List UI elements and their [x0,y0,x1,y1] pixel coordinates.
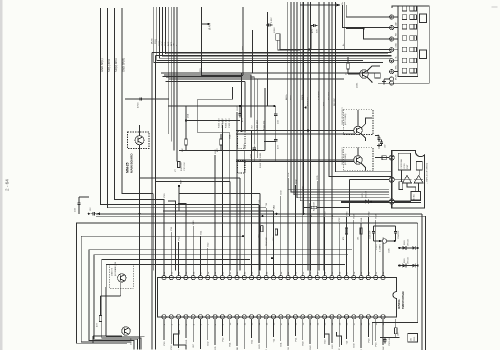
terminal tab [420,14,427,23]
svg-text:2SB774: 2SB774 [112,267,114,276]
wire [185,145,187,151]
pin number [208,271,210,274]
svg-text:P10: P10 [164,341,166,346]
part label [310,201,315,211]
svg-text:35: 35 [186,271,188,274]
svg-text:1k: 1k [346,72,348,75]
svg-text:53: 53 [317,271,319,274]
wire [166,77,254,145]
svg-text:C506: C506 [389,248,391,253]
wire [236,161,355,163]
IC pin 16 [271,276,275,280]
pin number [339,271,341,274]
wire [151,53,153,350]
faint mark [492,6,498,7]
wire [347,57,349,63]
svg-text:46: 46 [266,271,268,274]
connector pin circle 3 [390,37,394,41]
wire [375,220,377,276]
net label [165,41,167,46]
wire [310,25,312,49]
IC pin 61 [374,315,378,319]
pin number [376,271,378,274]
wire [395,334,397,338]
svg-text:473: 473 [97,323,99,327]
wire [170,7,172,141]
svg-text:(NO MARK) ON: (NO MARK) ON [114,261,117,276]
pin number [252,271,254,274]
IC label [397,291,405,309]
wire [380,337,400,339]
pin label [317,175,319,180]
svg-text:C503 +B: C503 +B [389,337,391,346]
wire [394,49,398,51]
svg-text:ST(L): ST(L) [155,39,157,44]
pin number [376,322,378,325]
wire [394,27,398,29]
part label [389,248,391,253]
wire [155,54,391,56]
IC pin 60 [366,315,370,319]
svg-text:62: 62 [383,271,385,274]
pin number [325,322,327,325]
svg-text:23: 23 [325,322,327,325]
wire [170,232,172,276]
pin label [237,106,239,111]
IC pin 44 [250,315,254,319]
svg-text:VT: VT [175,169,177,172]
wire [341,202,421,204]
svg-text:100: 100 [398,332,400,336]
capacitor C201 [266,17,273,27]
svg-text:9: 9 [223,323,225,325]
wire [202,7,243,75]
svg-text:SP(R) 8P/3: SP(R) 8P/3 [114,58,118,72]
net label [174,43,176,46]
node junction [239,105,241,107]
pin label [354,343,356,348]
pin label [310,345,312,350]
transistor Q101 outline [128,132,150,149]
crystal X5001 [373,239,395,243]
pin label [230,342,232,347]
pin label [266,202,268,206]
board border [96,215,425,217]
wire [294,319,296,336]
ground [382,80,386,84]
resistor R115 [175,162,180,173]
svg-text:0.022: 0.022 [271,17,273,23]
value list [257,120,266,168]
wire [343,5,392,28]
wire [101,8,259,205]
pin number [179,271,181,274]
pin label [222,119,224,124]
wire [360,223,362,276]
pin number [332,322,334,325]
node junction [370,200,372,202]
svg-text:RMT: RMT [407,164,409,169]
wire [382,319,384,345]
net label [114,58,118,72]
wire [303,2,305,214]
svg-text:SW B+: SW B+ [302,93,304,100]
svg-text:C115 104: C115 104 [184,162,186,171]
bus arrow [96,212,100,215]
pin number [179,323,181,325]
wire [178,319,180,348]
svg-text:473: 473 [242,118,244,122]
wire [357,148,359,156]
wire [287,319,289,346]
svg-text:P11: P11 [171,226,173,231]
remote part [416,162,422,171]
wire [361,118,372,128]
svg-text:FM: FM [396,33,398,36]
IC pin 39 [213,315,217,319]
pin number [347,322,349,325]
pin number [186,323,188,325]
pin label [200,230,202,235]
svg-text:T10: T10 [346,340,348,345]
wire [167,7,169,134]
svg-text:2: 2 [171,323,173,325]
pin number [266,271,268,274]
wire [152,52,392,54]
wire [197,131,229,133]
wire [125,98,169,100]
svg-text:C105 103: C105 103 [229,118,231,128]
node junction [309,215,311,217]
wire [401,170,403,182]
svg-text:P20: P20 [368,338,370,343]
IC pin 38 [206,315,210,319]
board border [96,213,422,215]
resistor R507 [358,228,363,240]
svg-text:40: 40 [223,271,225,274]
pin number [361,322,363,325]
pin number [164,323,166,325]
svg-text:← RMT-101 (KY-W500): ← RMT-101 (KY-W500) [427,163,429,184]
wire [291,2,389,192]
board border [424,216,426,350]
svg-text:37: 37 [201,271,203,274]
pin number [310,271,312,274]
wire [373,225,395,227]
wire [236,319,238,346]
capacitor C505 [370,229,375,239]
page number 2-64 [5,179,10,191]
wire [331,2,333,271]
svg-text:24: 24 [332,322,334,325]
pin label [193,220,195,225]
pin number [281,322,283,325]
wire [221,125,223,276]
staircase wire [174,330,187,350]
pin label [332,214,334,219]
wire [89,250,352,350]
pin number [339,322,341,325]
wire [100,296,102,316]
wire [309,319,311,344]
wire [207,248,209,276]
svg-text:19: 19 [296,322,298,325]
wire [92,336,94,343]
wire [170,319,172,344]
svg-text:GND: GND [162,41,164,46]
wire [161,73,241,132]
wire [178,204,186,271]
wire [185,218,187,276]
transistor Q202 outline [343,110,373,135]
wire [221,319,223,336]
net label [181,179,183,184]
switch contact [410,47,417,52]
svg-text:AM OSC: AM OSC [328,92,331,100]
svg-text:R41: R41 [230,342,232,347]
wire [176,7,178,162]
IC pin 29 [366,276,370,280]
svg-text:K11: K11 [200,230,202,235]
svg-text:5: 5 [193,323,195,325]
net label [100,58,104,72]
node junction [363,27,365,29]
wire [244,81,246,131]
capacitor C402 [90,207,97,216]
wire [78,197,80,200]
IC pin 25 [337,276,341,280]
connector pin circle 1 [390,15,394,19]
svg-text:11: 11 [237,322,239,325]
capacitor C110 [274,111,280,124]
wire [108,8,267,208]
pin number [171,271,173,274]
pin number [288,271,290,274]
pin number [383,271,385,274]
connector pin circle 4 [390,48,394,52]
pin label [179,236,181,241]
pin number [332,271,334,274]
remote IC IC301 [398,153,410,170]
svg-text:41: 41 [230,271,232,274]
pin label [222,337,224,342]
switch contact [402,6,407,11]
pin label [396,33,398,36]
pin label [281,190,283,195]
pin label [368,338,370,343]
part label [342,107,347,125]
svg-text:20: 20 [303,322,305,325]
wire [185,319,187,338]
svg-text:X5001: X5001 [376,243,378,250]
wire [395,236,397,242]
pin label [272,205,275,210]
capacitor C216 [378,133,387,148]
wire [165,7,388,54]
wire [273,319,275,337]
IC pin 1 [162,276,166,280]
pin number [369,271,371,274]
wire [78,207,80,214]
svg-text:44: 44 [252,271,254,274]
wire [178,186,180,211]
wire [346,27,363,29]
svg-text:25: 25 [339,322,341,325]
node junction [88,213,90,215]
wire [353,220,355,276]
wire [361,163,366,171]
svg-text:3: 3 [179,323,181,325]
pin label [376,342,378,347]
wire [240,77,242,132]
wire [367,77,372,83]
svg-text:21: 21 [310,322,312,325]
svg-text:52: 52 [310,271,312,274]
IC pin 11 [235,276,239,280]
wire [394,16,398,18]
svg-text:1: 1 [164,323,166,325]
IC pin 19 [293,276,297,280]
svg-text:1SS133: 1SS133 [407,257,409,264]
wire [261,224,263,227]
pin number [274,271,276,274]
svg-text:R41: R41 [361,217,363,222]
wire [384,337,386,339]
amp triangle [403,175,412,183]
svg-text:4: 4 [186,323,188,325]
board name [126,153,134,173]
wire [394,179,402,181]
svg-text:D32: D32 [208,341,210,346]
connector pin circle 7 [390,77,394,81]
svg-text:CX20106A: CX20106A [400,159,403,169]
wire [287,178,289,276]
pin number [208,323,210,325]
IC pin 30 [374,276,378,280]
IC pin 12 [242,276,246,280]
connector pin circle 8 [390,81,394,85]
connector pin circle 6 [390,70,394,74]
wire [395,319,397,328]
IC pin 26 [344,276,348,280]
pin label [339,348,341,350]
pin label [193,343,195,347]
svg-text:MUTE: MUTE [396,74,398,80]
wire [122,8,153,193]
transistor Q401 outline [109,264,133,288]
svg-text:51: 51 [303,271,305,274]
svg-text:B+: B+ [342,1,344,4]
svg-text:CN: CN [411,338,413,341]
svg-text:K10: K10 [193,220,195,225]
part label [404,257,409,264]
svg-text:R22: R22 [237,106,239,111]
crossed pin [389,177,394,182]
resistor R201 [346,63,350,75]
net label [209,23,212,30]
IC pin 37 [198,315,202,319]
wire [241,72,380,74]
switch contact [410,24,417,29]
pin label [208,341,210,346]
wire [336,2,393,172]
pin number [171,323,173,325]
svg-text:D215: D215 [362,192,364,198]
wire [178,242,180,276]
svg-text:16: 16 [274,322,276,325]
component outline [238,161,246,174]
IC U5001 body [158,278,397,317]
diode pair D503 D504 [398,246,419,250]
background [0,0,3,350]
wire [280,196,282,276]
diode pair D501 D502 [398,264,419,268]
svg-text:AM B+: AM B+ [285,93,288,100]
resistor R503 [395,328,400,336]
svg-text:P13: P13 [171,345,173,350]
pin label [164,193,166,198]
pin label [237,346,239,350]
IC pin 34 [177,315,181,319]
svg-text:TMP47C870AF: TMP47C870AF [401,291,405,309]
wire [157,7,363,60]
IC pin 58 [352,315,356,319]
wire [302,319,304,340]
wire [168,201,176,271]
jog wire [337,332,342,345]
wire [324,217,326,276]
IC pin 10 [228,276,232,280]
pin number [201,271,203,274]
part label [376,243,381,252]
IC pin 20 [301,276,305,280]
wire [179,192,260,194]
wire [259,193,261,270]
node junction [242,235,244,237]
wire [196,99,198,132]
wire [367,217,369,276]
connector small box [375,73,380,78]
pin number [369,322,371,325]
svg-text:D35: D35 [215,346,217,350]
pin number [347,271,349,274]
pin number [317,271,319,274]
IC pin 14 [257,276,261,280]
pin label [171,226,173,231]
svg-text:T11: T11 [266,202,268,206]
node junction [307,129,309,131]
wire [338,319,340,347]
pin label [339,217,341,222]
IC pin 62 [381,315,385,319]
wire [160,7,392,58]
wire [346,319,348,339]
svg-text:R111 473: R111 473 [264,120,266,130]
net label [162,41,164,46]
IC pin 51 [301,315,305,319]
wire [267,12,269,106]
wire [275,106,277,111]
IC pin 4 [184,276,188,280]
svg-text:R512 222: R512 222 [266,236,268,246]
wire [338,223,340,276]
svg-text:P10: P10 [164,193,166,198]
wire [375,157,389,159]
switch contact [402,24,407,29]
pin number [310,322,312,325]
node junction [185,119,187,121]
svg-text:B+: B+ [396,55,398,58]
